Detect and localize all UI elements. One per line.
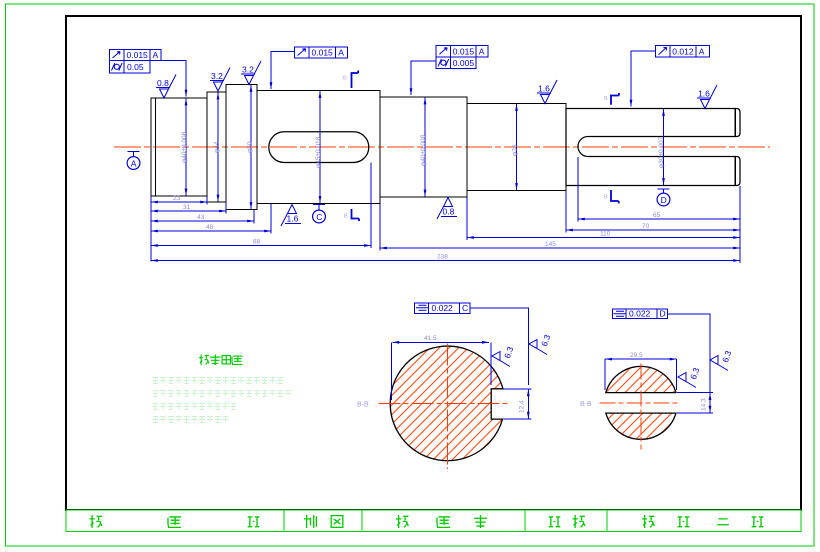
svg-text:31: 31 xyxy=(183,204,191,211)
dimension 41.5 over A-A xyxy=(392,341,488,343)
feature control frame F4 (runout 0.012 A) xyxy=(656,45,710,57)
svg-text:0.022: 0.022 xyxy=(432,303,454,313)
roughness 1.6 on S7 top xyxy=(697,85,717,109)
roughness 6.3 at A-A keyway bottom xyxy=(529,333,553,355)
svg-text:A: A xyxy=(153,50,159,60)
leader of F5 and dim 12.4 xyxy=(470,308,529,385)
svg-text:14.3: 14.3 xyxy=(701,398,708,411)
svg-text:φ45±0.018: φ45±0.018 xyxy=(315,136,322,168)
svg-text:φ35: φ35 xyxy=(512,144,519,156)
svg-text:φ44: φ44 xyxy=(213,141,220,153)
roughness 0.8 under S5 (pointing up) xyxy=(437,198,457,220)
feature control frame F1 (runout 0.015 A / cylindricity 0.05) xyxy=(109,49,161,73)
svg-text:B: B xyxy=(344,214,348,220)
svg-text:3.2: 3.2 xyxy=(211,71,223,81)
svg-text:145: 145 xyxy=(545,241,556,248)
svg-text:1.6: 1.6 xyxy=(287,214,299,224)
svg-text:0.015: 0.015 xyxy=(312,48,334,58)
roughness 3.2 on S2 top xyxy=(210,68,230,92)
shaft section S7 (dia 30) with open keyway xyxy=(566,109,740,186)
svg-text:D: D xyxy=(660,309,666,319)
svg-text:6.3: 6.3 xyxy=(688,366,702,381)
section view B-B top segment xyxy=(606,366,676,392)
svg-text:B: B xyxy=(343,76,347,82)
section cut mark right bottom xyxy=(604,190,619,203)
section cut mark right top xyxy=(604,93,619,105)
dimension 88 xyxy=(151,245,371,247)
keyway slot on S4 xyxy=(269,132,369,163)
feature control frame F5 (symmetry 0.022 C) xyxy=(415,303,470,313)
title block text cell 3: 杨 述 志 xyxy=(396,515,487,528)
shaft section S6 (dia 35) xyxy=(467,104,566,191)
leader of F6 and dim 14.3 xyxy=(668,314,710,392)
section view B-B bottom segment xyxy=(606,413,676,439)
svg-text:0.015: 0.015 xyxy=(453,46,475,56)
svg-text:D: D xyxy=(661,195,667,205)
svg-text:φ30±0.007: φ30±0.007 xyxy=(658,136,665,168)
svg-text:0.005: 0.005 xyxy=(453,58,475,68)
technical requirements line 4 xyxy=(153,417,229,423)
svg-text:0.022: 0.022 xyxy=(629,309,651,319)
feature control frame F2 (runout 0.015 A) xyxy=(295,47,348,58)
svg-text:110: 110 xyxy=(600,231,611,238)
datum D symbol xyxy=(657,189,670,206)
section cut mark left top xyxy=(343,71,358,89)
dimension 65 xyxy=(578,218,740,220)
svg-text:65: 65 xyxy=(653,212,661,219)
title block xyxy=(66,510,801,532)
svg-text:0.05: 0.05 xyxy=(127,62,144,72)
dia dim line S2 xyxy=(217,93,219,202)
centerline xyxy=(114,146,770,148)
dimension 23 xyxy=(151,201,207,203)
title block text cell 4: 班 级 xyxy=(549,515,585,528)
roughness 3.2 on S3 top xyxy=(241,61,261,85)
dimension 145 xyxy=(380,247,740,249)
roughness 6.3 at B-B slot side xyxy=(678,366,702,388)
svg-text:6.3: 6.3 xyxy=(539,333,553,348)
svg-text:B-B: B-B xyxy=(357,402,369,409)
datum A symbol xyxy=(127,152,140,170)
shaft section S5 (dia 40) xyxy=(380,97,467,197)
technical requirements line 1 xyxy=(153,378,284,384)
svg-text:A: A xyxy=(338,48,344,58)
extension lines below shaft xyxy=(151,157,740,263)
leader of F4 xyxy=(631,51,656,107)
section A-A keyway dim extensions xyxy=(392,342,532,419)
shaft section S1 (dia 40) xyxy=(151,98,207,196)
svg-text:6.3: 6.3 xyxy=(720,349,734,364)
svg-text:88: 88 xyxy=(253,239,261,246)
dia dim line S7 xyxy=(663,109,665,185)
dia dim line S6 xyxy=(516,104,518,190)
dimension 31 xyxy=(151,210,226,212)
feature control frame F3 (runout 0.015 A / cylindricity 0.005) xyxy=(436,46,488,69)
section B-B centerlines xyxy=(599,363,679,449)
technical requirements heading 技术要求 xyxy=(199,355,243,366)
svg-text:A: A xyxy=(479,46,485,56)
datum C symbol xyxy=(313,205,326,223)
svg-text:0.012: 0.012 xyxy=(672,47,694,57)
svg-text:0.8: 0.8 xyxy=(443,207,455,217)
leader of F3 xyxy=(411,61,436,95)
technical requirements line 2 xyxy=(153,391,291,397)
svg-text:B: B xyxy=(604,195,608,201)
svg-text:0.8: 0.8 xyxy=(157,78,169,88)
title block text cell 1: 低 速 轴 xyxy=(90,515,260,528)
svg-text:29.5: 29.5 xyxy=(630,352,643,359)
svg-text:70: 70 xyxy=(642,223,650,230)
roughness 6.3 at B-B leader xyxy=(710,349,734,371)
leader of F2 xyxy=(271,52,295,90)
svg-text:6.3: 6.3 xyxy=(502,345,516,360)
svg-text:0.015: 0.015 xyxy=(127,50,149,60)
shaft section S4 (dia 45) xyxy=(257,91,380,204)
dimension 70 xyxy=(566,229,740,231)
svg-text:A: A xyxy=(699,47,705,57)
section cut mark left bottom xyxy=(344,209,359,221)
section view A-A body xyxy=(390,346,503,461)
leader of F1 xyxy=(161,61,186,97)
dimension 110 xyxy=(467,237,740,239)
svg-text:48: 48 xyxy=(206,224,214,231)
shaft section S2 (dia 44) xyxy=(207,92,226,202)
shaft section S3 (dia 50) xyxy=(226,85,257,210)
svg-text:12.4: 12.4 xyxy=(519,400,526,413)
roughness 1.6 under S4 keyway (pointing up) xyxy=(281,205,301,227)
svg-text:B: B xyxy=(604,96,608,102)
dimension 29.5 over B-B xyxy=(605,358,676,360)
svg-text:φ40±0.008: φ40±0.008 xyxy=(181,131,188,163)
dia dim line S4 xyxy=(319,91,321,203)
svg-text:φ40±0.008: φ40±0.008 xyxy=(420,134,427,166)
feature control frame F6 (symmetry 0.022 D) xyxy=(612,309,667,319)
dimension 48 xyxy=(151,230,271,232)
svg-text:C: C xyxy=(462,303,468,313)
svg-text:23: 23 xyxy=(173,195,181,202)
technical requirements line 3 xyxy=(153,404,237,410)
dia dim line S3 xyxy=(250,85,252,209)
svg-text:B-B: B-B xyxy=(580,401,592,408)
svg-text:41.5: 41.5 xyxy=(424,335,437,342)
dimension 43 xyxy=(151,220,254,222)
svg-text:C: C xyxy=(316,212,322,222)
section A-A centerlines xyxy=(379,343,508,469)
dimension 238 xyxy=(151,260,740,262)
roughness 1.6 on S6 top xyxy=(537,80,557,104)
svg-text:3.2: 3.2 xyxy=(242,65,254,75)
roughness 0.8 on S1 top xyxy=(156,75,176,99)
title block text cell 5: 数 控 二 班 xyxy=(642,515,763,528)
svg-text:43: 43 xyxy=(197,214,205,221)
svg-text:A: A xyxy=(131,158,137,168)
dia dim line S1 xyxy=(185,99,187,196)
svg-text:1.6: 1.6 xyxy=(698,89,710,99)
dia dim line S5 xyxy=(424,98,426,197)
svg-text:1.6: 1.6 xyxy=(538,84,550,94)
roughness 6.3 at A-A keyway side xyxy=(492,345,516,367)
svg-text:238: 238 xyxy=(437,254,448,261)
section B-B dim extensions xyxy=(605,359,713,413)
title block text cell 2: 制 图 xyxy=(304,515,343,528)
svg-text:φ50: φ50 xyxy=(246,141,253,153)
